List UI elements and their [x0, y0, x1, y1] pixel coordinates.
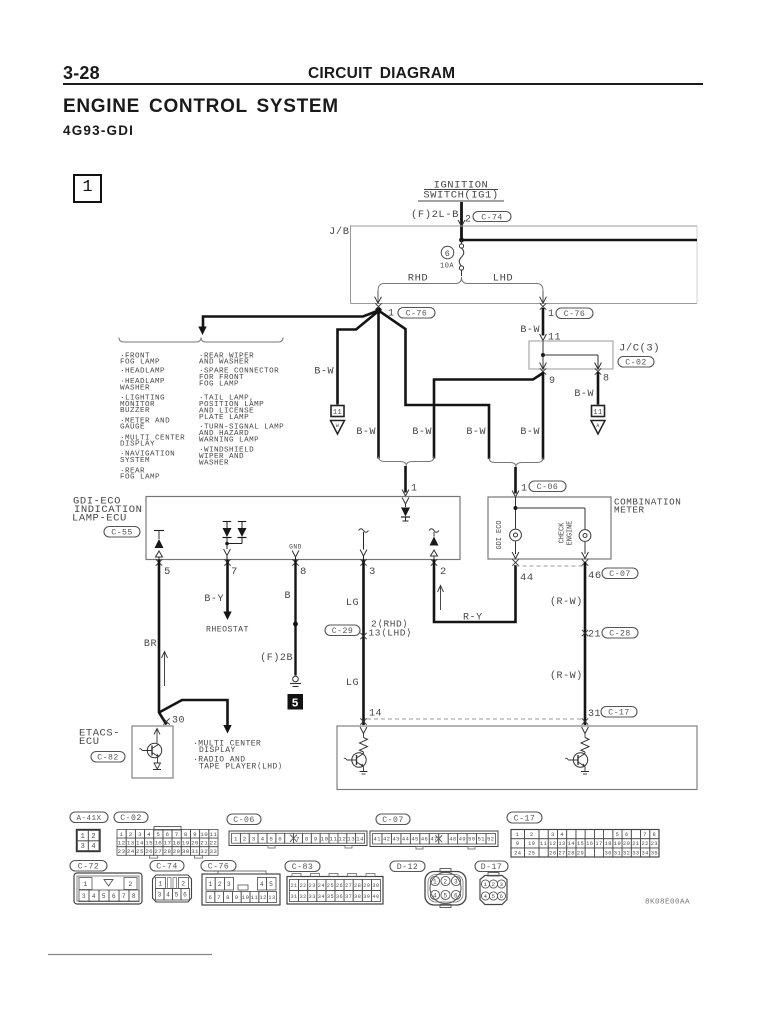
- svg-text:4: 4: [560, 832, 564, 838]
- svg-text:3: 3: [82, 893, 86, 900]
- svg-text:C-76: C-76: [406, 310, 427, 319]
- svg-text:AND WASHER: AND WASHER: [199, 359, 249, 367]
- svg-text:BR: BR: [144, 639, 157, 650]
- direction arrow up (R-Y wire): [438, 586, 444, 611]
- svg-text:GDI ECO: GDI ECO: [496, 521, 504, 550]
- svg-text:46: 46: [421, 837, 428, 843]
- svg-text:13: 13: [558, 841, 565, 847]
- svg-text:30: 30: [172, 716, 185, 727]
- RHD/LHD branch bracket: [378, 277, 543, 291]
- pin 11 J/C entry: [540, 333, 562, 344]
- pin 8: [292, 559, 307, 578]
- load list column 1: [120, 353, 185, 482]
- header rule: [63, 83, 703, 85]
- GDI ECO lamp: [496, 521, 521, 559]
- svg-text:·HEADLAMP: ·HEADLAMP: [120, 368, 165, 376]
- wire LG pin3 to engine ECU pin 14: [362, 560, 365, 726]
- svg-text:50: 50: [468, 837, 475, 843]
- svg-text:29: 29: [577, 850, 584, 856]
- svg-text:24: 24: [318, 883, 325, 889]
- svg-text:SYSTEM: SYSTEM: [120, 457, 150, 465]
- svg-text:2: 2: [243, 835, 247, 842]
- svg-text:4: 4: [484, 893, 488, 900]
- svg-text:C-07: C-07: [609, 570, 630, 579]
- pin 2 connector C-74: [465, 212, 511, 226]
- svg-text:B-W: B-W: [574, 389, 594, 400]
- pin 3 internal arrow: [359, 529, 369, 560]
- connector C-28 crossing: [582, 628, 638, 641]
- svg-text:48: 48: [449, 837, 456, 843]
- ground symbol A (right): [591, 406, 605, 435]
- svg-text:44: 44: [402, 837, 409, 843]
- svg-text:13: 13: [347, 835, 355, 842]
- connector C-72 pinout: [74, 873, 142, 904]
- pin 8 J/C exit: [595, 363, 610, 385]
- ground symbol W (left): [331, 406, 345, 435]
- wire B RHD feed to meter brace: [379, 311, 490, 460]
- svg-text:15: 15: [577, 841, 584, 847]
- svg-text:C-28: C-28: [609, 630, 630, 639]
- svg-text:32: 32: [300, 894, 307, 900]
- svg-text:C-02: C-02: [120, 814, 141, 823]
- svg-text:7: 7: [231, 566, 238, 578]
- svg-text:11: 11: [330, 835, 338, 842]
- svg-text:6: 6: [500, 893, 504, 900]
- svg-text:9: 9: [549, 376, 556, 387]
- junction block J/B: [329, 226, 697, 304]
- wire branch to accessory list: [159, 700, 232, 734]
- svg-text:A-41X: A-41X: [76, 815, 101, 823]
- svg-text:12: 12: [118, 839, 126, 846]
- LHD drop wire: [542, 291, 544, 303]
- svg-text:8: 8: [226, 894, 230, 901]
- svg-text:D-17: D-17: [481, 863, 502, 872]
- connector dashes C-17: [367, 718, 584, 720]
- svg-text:3: 3: [369, 566, 376, 578]
- svg-text:9: 9: [235, 894, 239, 901]
- svg-text:5: 5: [269, 835, 273, 842]
- svg-text:1: 1: [234, 835, 238, 842]
- svg-text:B-W: B-W: [412, 427, 432, 438]
- svg-text:5: 5: [156, 831, 160, 838]
- ETACS-ECU box: [132, 726, 173, 778]
- wire junction to ground W: [338, 311, 379, 405]
- svg-text:(R-W): (R-W): [550, 670, 583, 682]
- pin 5 internal arrow: [154, 531, 164, 560]
- svg-text:5: 5: [443, 892, 447, 899]
- connector D-12 label: [390, 861, 425, 872]
- wire LHD drop to J/C pin 11: [542, 308, 545, 336]
- svg-text:16: 16: [586, 841, 593, 847]
- wire D LHD feed to meter brace: [542, 372, 545, 460]
- svg-text:(F)2L-B: (F)2L-B: [411, 209, 459, 221]
- svg-text:2: 2: [181, 881, 185, 888]
- svg-text:7: 7: [643, 832, 647, 838]
- svg-text:1: 1: [521, 484, 528, 495]
- svg-text:4: 4: [260, 881, 264, 888]
- svg-text:2: 2: [443, 878, 447, 885]
- svg-text:3: 3: [138, 831, 142, 838]
- pin 1 C-06 meter entry: [512, 481, 566, 497]
- svg-text:METER: METER: [614, 505, 645, 516]
- svg-text:20: 20: [191, 839, 199, 846]
- svg-text:12: 12: [338, 835, 346, 842]
- svg-text:42: 42: [383, 837, 390, 843]
- svg-text:C-72: C-72: [78, 863, 99, 872]
- ETACS-ECU label: [79, 728, 125, 763]
- svg-text:34: 34: [641, 850, 648, 856]
- connector D-12 pinout: [425, 869, 466, 908]
- svg-text:5: 5: [492, 893, 496, 900]
- svg-text:8: 8: [132, 893, 136, 900]
- brace merge to combination meter: [489, 458, 543, 468]
- pin 44: [512, 559, 533, 584]
- svg-text:9: 9: [314, 835, 318, 842]
- svg-text:23: 23: [118, 848, 126, 855]
- svg-text:2: 2: [465, 215, 472, 226]
- node RHD pin 1 C-76: [375, 303, 435, 319]
- wire B pin8 to ground: [293, 560, 298, 676]
- meter internal wiring: [514, 497, 586, 529]
- svg-text:6: 6: [112, 893, 116, 900]
- svg-text:23: 23: [651, 841, 658, 847]
- pin 46 C-07: [582, 559, 638, 582]
- power bus wire from IG to right: [459, 238, 697, 243]
- svg-text:B-W: B-W: [314, 367, 334, 378]
- svg-text:4: 4: [433, 892, 437, 899]
- svg-text:11: 11: [209, 831, 217, 838]
- pin 30 ETACS: [163, 716, 185, 727]
- svg-text:32: 32: [200, 848, 208, 855]
- svg-text:DISPLAY: DISPLAY: [199, 746, 236, 755]
- svg-text:5: 5: [269, 881, 273, 888]
- svg-text:WASHER: WASHER: [199, 460, 229, 468]
- connector C-83 label: [285, 861, 320, 872]
- pin 3: [360, 559, 376, 578]
- svg-text:B-W: B-W: [520, 325, 540, 336]
- svg-text:41: 41: [374, 837, 381, 843]
- svg-text:ENGINE: ENGINE: [567, 521, 575, 546]
- svg-text:1: 1: [484, 881, 488, 888]
- pin 7 internal LEDs: [223, 522, 247, 560]
- connector C-06 pinout: [229, 831, 367, 848]
- subsection 4G93-GDI: [63, 123, 134, 138]
- svg-text:1: 1: [158, 881, 162, 888]
- pin 14 engine ECU: [360, 709, 382, 725]
- svg-text:C-76: C-76: [208, 863, 229, 872]
- svg-text:6: 6: [183, 891, 187, 898]
- svg-text:4: 4: [92, 893, 96, 900]
- svg-text:WASHER: WASHER: [120, 385, 150, 393]
- svg-text:6: 6: [208, 894, 212, 901]
- wire C LHD feed to ECU brace: [434, 373, 543, 459]
- svg-text:C-83: C-83: [292, 863, 313, 872]
- J/C internal wire: [541, 341, 598, 369]
- svg-text:16: 16: [154, 839, 162, 846]
- svg-text:14: 14: [369, 709, 382, 720]
- svg-text:6: 6: [166, 831, 170, 838]
- fuse 6 10A: [440, 240, 464, 276]
- pin 5: [156, 559, 171, 578]
- svg-text:2: 2: [440, 566, 447, 578]
- svg-text:1: 1: [120, 831, 124, 838]
- svg-text:51: 51: [478, 837, 485, 843]
- svg-text:36: 36: [336, 894, 343, 900]
- svg-text:1: 1: [81, 833, 86, 841]
- svg-text:B-Y: B-Y: [204, 594, 224, 605]
- svg-text:RHEOSTAT: RHEOSTAT: [206, 626, 249, 635]
- svg-text:29: 29: [363, 883, 370, 889]
- combination meter box: [488, 497, 611, 559]
- svg-text:3: 3: [227, 881, 231, 888]
- load list bracket: [119, 338, 283, 343]
- svg-text:LG: LG: [346, 598, 359, 609]
- connector A-41X pinout: [77, 830, 101, 852]
- svg-text:9: 9: [516, 841, 520, 847]
- svg-text:8K08E00AA: 8K08E00AA: [645, 899, 690, 907]
- svg-text:C-02: C-02: [625, 359, 646, 368]
- svg-text:C-55: C-55: [111, 529, 132, 538]
- svg-text:28: 28: [164, 848, 172, 855]
- svg-text:SWITCH(IG1): SWITCH(IG1): [423, 190, 498, 202]
- svg-text:30: 30: [182, 848, 190, 855]
- wire ignition switch to J/B: [460, 202, 463, 240]
- svg-text:3: 3: [252, 835, 256, 842]
- svg-text:19: 19: [614, 841, 621, 847]
- svg-text:FOG LAMP: FOG LAMP: [199, 381, 239, 389]
- svg-text:35: 35: [651, 850, 658, 856]
- svg-text:10A: 10A: [440, 263, 454, 271]
- connector A-41X label: [70, 812, 108, 823]
- wire to GDI-ECO pin 1: [404, 466, 407, 493]
- svg-text:FOG LAMP: FOG LAMP: [120, 474, 160, 482]
- svg-text:TAPE PLAYER⟨LHD⟩: TAPE PLAYER⟨LHD⟩: [199, 762, 283, 772]
- load list column 2: [199, 353, 284, 468]
- svg-text:12: 12: [259, 894, 267, 901]
- svg-text:28: 28: [354, 883, 361, 889]
- svg-text:21: 21: [632, 841, 639, 847]
- svg-text:35: 35: [327, 894, 334, 900]
- svg-text:8: 8: [300, 566, 307, 578]
- connector C-17 label: [507, 812, 542, 823]
- svg-text:31: 31: [290, 894, 297, 900]
- svg-text:8: 8: [603, 374, 610, 385]
- svg-text:31: 31: [191, 848, 199, 855]
- svg-text:(R-W): (R-W): [550, 596, 583, 608]
- svg-text:26: 26: [336, 883, 343, 889]
- svg-text:LAMP-ECU: LAMP-ECU: [72, 513, 127, 525]
- svg-text:31: 31: [614, 850, 621, 856]
- junction node RHD: [376, 308, 382, 314]
- svg-text:PLATE LAMP: PLATE LAMP: [199, 414, 249, 422]
- svg-text:R-Y: R-Y: [463, 613, 483, 624]
- svg-text:5: 5: [102, 893, 106, 900]
- svg-text:27: 27: [154, 848, 162, 855]
- svg-text:21: 21: [588, 630, 601, 641]
- svg-text:25: 25: [327, 883, 334, 889]
- svg-text:45: 45: [411, 837, 418, 843]
- svg-text:2: 2: [129, 831, 133, 838]
- svg-text:4: 4: [261, 835, 265, 842]
- svg-text:5: 5: [616, 832, 620, 838]
- svg-text:39: 39: [363, 894, 370, 900]
- svg-text:GND: GND: [289, 544, 302, 551]
- LED under pin 1: [401, 498, 410, 522]
- svg-text:34: 34: [318, 894, 325, 900]
- wire junction to load list arrow: [198, 311, 378, 336]
- svg-text:28: 28: [568, 850, 575, 856]
- svg-text:BUZZER: BUZZER: [120, 407, 150, 415]
- svg-text:C-82: C-82: [97, 754, 118, 763]
- svg-text:33: 33: [209, 848, 217, 855]
- svg-text:2: 2: [128, 881, 132, 888]
- svg-text:C-74: C-74: [156, 863, 177, 872]
- svg-text:C-17: C-17: [514, 814, 535, 823]
- engine ECU circuit pin 31: [565, 727, 589, 774]
- combination meter label: [614, 497, 681, 516]
- svg-text:33: 33: [632, 850, 639, 856]
- svg-text:9: 9: [193, 831, 197, 838]
- connector C-76 pinout: [202, 871, 280, 905]
- svg-text:A: A: [596, 423, 599, 429]
- node LHD pin 1 C-76: [540, 303, 593, 320]
- pin 31 C-17: [582, 707, 637, 725]
- svg-text:CHECK: CHECK: [559, 522, 567, 544]
- connector C-07 label: [376, 814, 410, 825]
- svg-text:3: 3: [500, 881, 504, 888]
- arrow into J/B: [458, 220, 465, 227]
- connector D-17 pinout: [480, 873, 507, 905]
- svg-text:27: 27: [345, 883, 352, 889]
- direction arrow up (BR wire): [162, 652, 168, 687]
- figure number box: [73, 174, 102, 203]
- connector C-17 pinout: [511, 830, 659, 858]
- svg-text:1: 1: [209, 881, 213, 888]
- svg-text:3: 3: [81, 843, 86, 851]
- svg-text:6: 6: [278, 835, 282, 842]
- svg-text:13⟨LHD⟩: 13⟨LHD⟩: [369, 628, 413, 639]
- svg-text:3: 3: [158, 891, 162, 898]
- svg-text:30: 30: [372, 883, 379, 889]
- connector C-74 label: [150, 861, 184, 872]
- pin 2: [431, 559, 447, 578]
- svg-text:2: 2: [91, 833, 96, 841]
- svg-text:13: 13: [127, 839, 135, 846]
- svg-text:11: 11: [251, 894, 259, 901]
- svg-text:8: 8: [184, 831, 188, 838]
- pin 8 GND: [289, 544, 302, 560]
- svg-text:B-W: B-W: [466, 427, 486, 438]
- engine ECU circuit pin 14: [344, 727, 368, 774]
- svg-text:26: 26: [549, 850, 556, 856]
- svg-text:40: 40: [372, 894, 379, 900]
- svg-text:C-29: C-29: [332, 627, 353, 636]
- svg-text:4: 4: [147, 831, 151, 838]
- connector C-72 label: [70, 861, 107, 872]
- svg-text:33: 33: [309, 894, 316, 900]
- svg-text:7: 7: [175, 831, 179, 838]
- svg-text:47: 47: [430, 837, 437, 843]
- connector C-29 crossing: [325, 619, 412, 640]
- svg-text:B-W: B-W: [520, 427, 540, 438]
- svg-text:8: 8: [305, 835, 309, 842]
- svg-text:19: 19: [182, 839, 190, 846]
- svg-text:20: 20: [623, 841, 630, 847]
- svg-text:44: 44: [520, 572, 534, 584]
- GDI-ECO indication lamp ECU label: [72, 496, 143, 538]
- svg-text:C-07: C-07: [382, 816, 403, 825]
- svg-text:24: 24: [514, 850, 521, 856]
- connector C-76 label: [201, 861, 236, 872]
- svg-text:14: 14: [136, 839, 144, 846]
- RHD drop wire: [377, 291, 379, 303]
- svg-text:6: 6: [454, 892, 458, 899]
- page number: [63, 63, 100, 84]
- connector C-02 label: [114, 812, 148, 823]
- CHECK ENGINE lamp: [559, 521, 591, 559]
- pin 7: [224, 559, 238, 578]
- svg-text:14: 14: [356, 835, 364, 842]
- svg-text:10: 10: [242, 894, 250, 901]
- svg-text:C-74: C-74: [481, 213, 502, 222]
- svg-text:25: 25: [136, 848, 144, 855]
- svg-text:29: 29: [173, 848, 181, 855]
- svg-text:43: 43: [392, 837, 399, 843]
- svg-text:1: 1: [516, 832, 520, 838]
- connector C-02 pinout: [117, 827, 218, 859]
- svg-text:J/B: J/B: [329, 226, 350, 238]
- connector C-07 pinout: [370, 831, 498, 849]
- junction connector J/C(3) C-02: [529, 341, 660, 369]
- svg-text:30: 30: [605, 850, 612, 856]
- svg-text:10: 10: [321, 835, 329, 842]
- pin 1 GDI-ECO entry: [402, 484, 417, 497]
- svg-text:3: 3: [551, 832, 555, 838]
- svg-text:18: 18: [173, 839, 181, 846]
- svg-text:15: 15: [145, 839, 153, 846]
- svg-text:1: 1: [411, 484, 418, 495]
- svg-text:52: 52: [487, 837, 494, 843]
- svg-text:18: 18: [605, 841, 612, 847]
- svg-text:31: 31: [588, 709, 601, 720]
- wire to meter pin 1: [514, 467, 517, 494]
- svg-text:6: 6: [625, 832, 629, 838]
- svg-text:3: 3: [454, 878, 458, 885]
- svg-text:1: 1: [548, 309, 555, 320]
- wire BR pin5 to ETACS: [159, 560, 167, 725]
- svg-text:11: 11: [333, 409, 342, 417]
- svg-text:2: 2: [218, 881, 222, 888]
- wire B-Y pin7 to rheostat: [223, 560, 231, 621]
- svg-text:5: 5: [164, 566, 171, 578]
- svg-text:DISPLAY: DISPLAY: [120, 441, 155, 449]
- ETACS internal transistor: [139, 729, 161, 770]
- svg-text:17: 17: [164, 839, 172, 846]
- pin 9 J/C exit: [540, 363, 556, 388]
- svg-text:GAUGE: GAUGE: [120, 424, 145, 432]
- svg-text:B-W: B-W: [356, 427, 376, 438]
- svg-text:14: 14: [568, 841, 575, 847]
- svg-text:8: 8: [653, 832, 657, 838]
- wire A RHD feed to ECU brace: [377, 311, 380, 459]
- svg-text:46: 46: [588, 570, 602, 582]
- brace merge to GDI-ECO ECU: [379, 457, 435, 467]
- pin 2 internal arrow: [429, 529, 439, 560]
- svg-text:25: 25: [528, 850, 535, 856]
- svg-text:J/C(3): J/C(3): [619, 343, 660, 355]
- connector D-17 label: [475, 861, 508, 872]
- svg-text:22: 22: [641, 841, 648, 847]
